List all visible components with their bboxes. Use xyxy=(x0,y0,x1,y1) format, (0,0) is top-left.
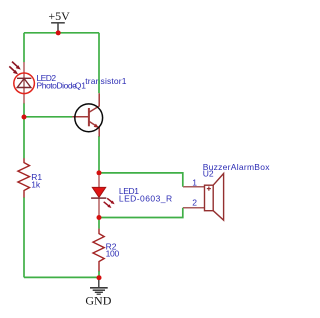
triangle body xyxy=(92,187,105,197)
pin 2 line xyxy=(183,207,205,209)
svg-text:U2: U2 xyxy=(203,169,214,179)
junction dot LED1 top xyxy=(97,170,102,175)
emission arrow 1 xyxy=(104,198,115,208)
junction dot base xyxy=(22,115,27,120)
anode triangle xyxy=(17,79,31,88)
svg-text:transistor1: transistor1 xyxy=(85,76,126,86)
pin leads xyxy=(23,62,25,78)
wire buzzer pin1 branch xyxy=(99,173,183,187)
plus mark xyxy=(207,187,211,191)
wire LED1 to R2 xyxy=(98,218,100,229)
svg-text:2: 2 xyxy=(192,198,197,208)
collector pin xyxy=(89,93,99,112)
base bar xyxy=(88,108,90,126)
wire right rail upper xyxy=(98,33,100,93)
horn xyxy=(213,174,223,221)
junction dot GND xyxy=(97,275,102,280)
svg-text:+5V: +5V xyxy=(48,9,70,23)
cathode lead xyxy=(98,198,100,215)
svg-text:LED-0603_R: LED-0603_R xyxy=(119,194,173,204)
wire base branch xyxy=(24,116,72,118)
resistor R1 xyxy=(18,158,30,197)
svg-text:GND: GND xyxy=(85,294,111,308)
pin 1 line xyxy=(183,186,205,188)
emitter pin xyxy=(89,121,99,136)
light arrow 1 xyxy=(9,62,20,75)
cathode bar xyxy=(17,77,31,79)
power +5V symbol xyxy=(51,23,65,32)
cathode bar xyxy=(91,197,106,199)
wire bottom rail xyxy=(24,276,99,278)
wire left rail upper xyxy=(23,33,25,62)
photodiode LED2 xyxy=(9,62,34,104)
light arrow 2 xyxy=(9,66,15,72)
svg-text:Q1: Q1 xyxy=(75,81,87,91)
resistor R2 xyxy=(93,229,104,272)
circle body xyxy=(14,73,35,94)
wire left rail lower xyxy=(23,197,25,277)
base pin xyxy=(72,116,89,118)
body rect xyxy=(205,185,214,211)
svg-text:100: 100 xyxy=(106,249,120,259)
svg-text:1k: 1k xyxy=(31,179,41,189)
wire R2 to GND xyxy=(98,271,100,278)
wire top rail xyxy=(24,32,99,34)
ground GND xyxy=(90,280,108,294)
wire buzzer pin2 branch xyxy=(99,208,183,218)
wire left rail middle xyxy=(23,103,25,159)
emitter arrow xyxy=(94,124,99,128)
buzzer U2 xyxy=(183,174,224,221)
body circle xyxy=(75,104,103,132)
svg-text:1: 1 xyxy=(192,177,197,187)
junction dot LED1 bottom xyxy=(97,215,102,220)
emission arrow 2 xyxy=(104,202,109,206)
wire emitter to LED1 xyxy=(98,136,100,173)
anode lead xyxy=(98,175,100,188)
transistor Q1 xyxy=(72,93,102,136)
svg-text:PhotoDiode: PhotoDiode xyxy=(37,81,78,91)
junction dot +5V xyxy=(56,30,61,35)
LED LED1 xyxy=(91,175,115,215)
